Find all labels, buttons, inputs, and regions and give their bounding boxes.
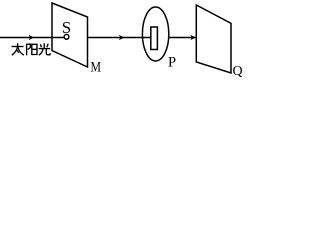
svg-text:P: P (168, 55, 176, 71)
arrowhead on beam M to P (119, 35, 125, 40)
wire: beam from P to Q (168, 37, 196, 39)
slit rectangle inside P (151, 27, 158, 50)
plate M (slanted parallelogram) (52, 3, 88, 67)
label 太阳光 (sunlight), drawn as strokes: char 太 (12, 43, 24, 55)
svg-text:S: S (62, 18, 71, 37)
svg-text:M: M (91, 60, 102, 76)
label 太阳光: char 光 (39, 43, 51, 55)
lens P (ellipse) (142, 7, 168, 61)
wire: incoming sunlight beam into pinhole S (0, 37, 64, 39)
label 太阳光: char 阳 (27, 44, 37, 56)
arrowhead on sunlight beam (29, 35, 35, 40)
arrowhead on beam P to Q (190, 35, 196, 40)
svg-text:Q: Q (233, 64, 243, 79)
wire: beam from M to P (88, 37, 151, 39)
pinhole S (small circle on plate M) (64, 34, 69, 39)
screen Q (slanted parallelogram) (196, 5, 231, 73)
